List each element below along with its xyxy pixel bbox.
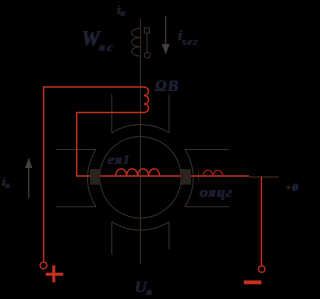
- svg-text:+θ: +θ: [285, 182, 298, 194]
- svg-text:iв: iв: [117, 2, 126, 19]
- svg-text:Uя: Uя: [135, 279, 152, 298]
- svg-text:Wвс: Wвс: [82, 26, 116, 54]
- svg-text:ΩВ: ΩВ: [155, 78, 179, 95]
- svg-text:isег: isег: [178, 28, 199, 48]
- svg-text:iя: iя: [2, 174, 10, 190]
- svg-text:ояцг: ояцг: [200, 185, 234, 201]
- svg-text:ея1: ея1: [108, 153, 131, 168]
